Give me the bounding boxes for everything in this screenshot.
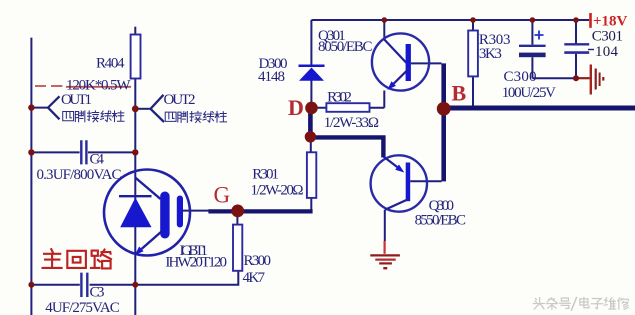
svg-text:C301: C301: [592, 29, 623, 45]
svg-text:104: 104: [595, 44, 619, 60]
svg-text:R404: R404: [96, 56, 125, 72]
svg-text:R301: R301: [252, 167, 279, 183]
svg-text:C300: C300: [504, 69, 537, 85]
svg-text:4K7: 4K7: [243, 270, 266, 286]
svg-text:1/2W-20Ω: 1/2W-20Ω: [251, 183, 304, 199]
svg-text:100U/25V: 100U/25V: [502, 85, 556, 101]
svg-text:4UF/275VAC: 4UF/275VAC: [45, 300, 120, 315]
svg-text:R300: R300: [244, 253, 272, 269]
svg-text:D: D: [288, 95, 304, 120]
svg-text:B: B: [452, 81, 467, 106]
svg-text:G: G: [214, 183, 231, 208]
svg-text:0.3UF/800VAC: 0.3UF/800VAC: [37, 167, 122, 183]
svg-text:OUT2: OUT2: [164, 92, 196, 108]
svg-text:8050/EBC: 8050/EBC: [318, 39, 373, 55]
svg-text:OUT1: OUT1: [61, 92, 92, 108]
svg-text:C3: C3: [90, 285, 105, 301]
svg-text:8550/EBC: 8550/EBC: [415, 212, 466, 228]
svg-text:1/2W-33Ω: 1/2W-33Ω: [324, 115, 379, 131]
svg-text:4148: 4148: [258, 69, 285, 85]
svg-text:R302: R302: [327, 90, 352, 106]
svg-text:+18V: +18V: [593, 14, 628, 30]
svg-text:3K3: 3K3: [479, 46, 502, 62]
svg-text:IHW20T120: IHW20T120: [165, 255, 227, 271]
svg-text:C4: C4: [90, 152, 105, 168]
